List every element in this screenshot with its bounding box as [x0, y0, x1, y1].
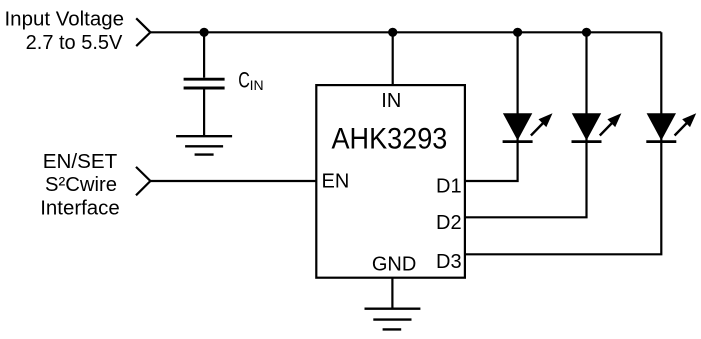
svg-text:D2: D2	[436, 212, 462, 234]
svg-text:EN: EN	[322, 170, 350, 192]
svg-text:Input Voltage: Input Voltage	[5, 8, 125, 30]
svg-text:D3: D3	[436, 251, 462, 273]
svg-text:IN: IN	[381, 90, 401, 112]
svg-text:GND: GND	[372, 254, 416, 276]
svg-text:D1: D1	[436, 176, 462, 198]
svg-text:EN/SET: EN/SET	[43, 151, 118, 173]
svg-text:S²Cwire: S²Cwire	[45, 174, 117, 196]
svg-text:C: C	[238, 69, 250, 93]
svg-text:IN: IN	[250, 77, 264, 93]
svg-text:2.7 to 5.5V: 2.7 to 5.5V	[26, 32, 123, 54]
svg-text:AHK3293: AHK3293	[332, 123, 448, 156]
svg-text:Interface: Interface	[40, 197, 120, 219]
